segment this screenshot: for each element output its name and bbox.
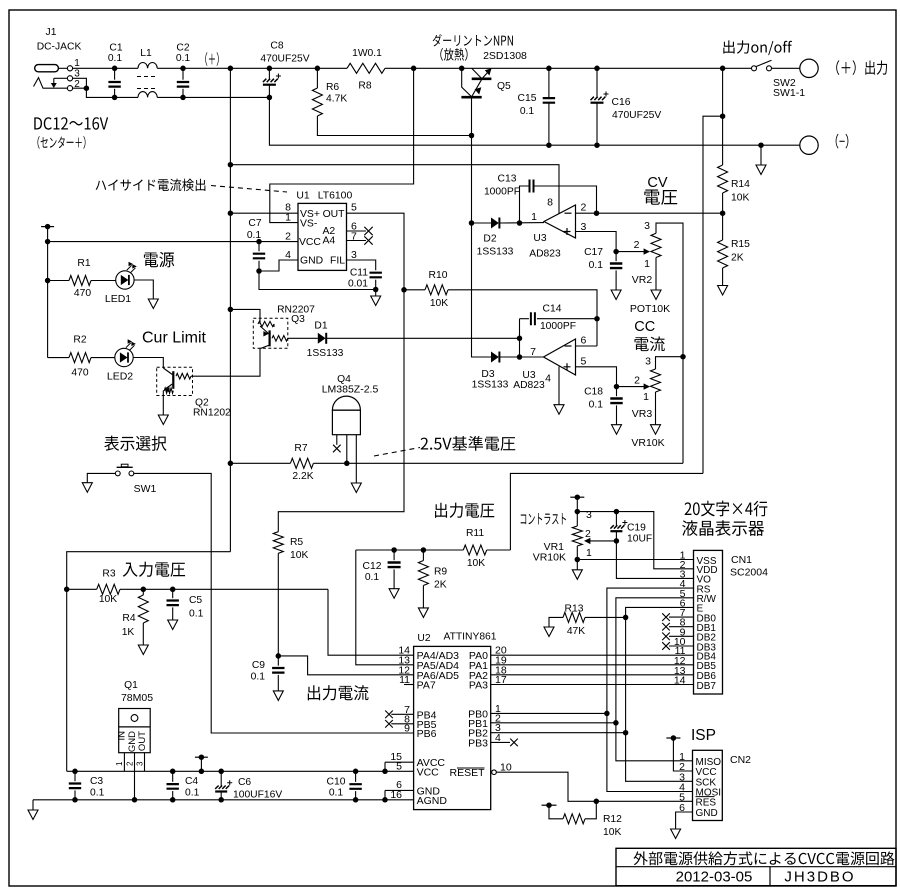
svg-text:D1: D1 [314,321,327,332]
svg-text:CC: CC [634,319,655,335]
svg-text:R12: R12 [603,814,622,825]
svg-text:R6: R6 [326,82,339,93]
wire jack pin1 to C1 [73,67,138,69]
wire E from PB2 [626,607,694,732]
capacitor C4 [170,769,176,775]
svg-text:2SD1308: 2SD1308 [483,50,527,62]
resistor R15 [722,213,724,240]
svg-text:R15: R15 [731,239,750,250]
diode D2 [472,222,492,224]
wire to PA5 [356,550,414,665]
svg-text:8: 8 [547,197,553,209]
svg-text:PB3: PB3 [468,737,488,749]
title block [616,848,896,885]
svg-text:3: 3 [644,220,650,232]
svg-text:R11: R11 [466,528,484,539]
svg-text:78M05: 78M05 [121,692,153,704]
svg-text:2: 2 [634,239,640,251]
svg-text:C12: C12 [363,561,382,572]
label output on/off [723,40,734,53]
svg-text:10K: 10K [467,558,485,569]
wire VR1 wiper [588,540,616,542]
svg-text:10K: 10K [731,193,749,204]
wire RESET to R12 node [496,772,692,801]
svg-text:470: 470 [74,288,91,299]
PB3 no-connect [491,741,510,743]
svg-text:1: 1 [74,58,80,69]
resistor R7 [228,461,234,467]
capacitor C7 [256,239,262,245]
wire SW1 right to PB6 [134,473,414,733]
LED2 [115,348,133,366]
diode D1 [288,337,318,339]
svg-text:0.1: 0.1 [108,53,123,64]
svg-text:SW1-1: SW1-1 [773,87,805,99]
svg-text:C17: C17 [584,247,603,258]
svg-text:U3: U3 [533,233,546,244]
wire VS+ sense pin8 [228,210,234,216]
ground below C17 [611,290,621,300]
svg-text:10K: 10K [430,298,448,309]
svg-text:1SS133: 1SS133 [477,247,514,258]
svg-text:R4: R4 [122,613,135,624]
svg-text:C7: C7 [248,218,261,229]
wire main rail down-left [229,68,231,551]
svg-text:AD823: AD823 [513,380,545,391]
svg-text:4: 4 [545,373,551,385]
svg-text:SW1: SW1 [134,483,157,495]
svg-text:C4: C4 [185,776,198,787]
capacitor C9 [276,653,282,659]
svg-text:C5: C5 [189,595,202,606]
ground at minus rail [758,142,764,148]
svg-text:R2: R2 [73,335,86,346]
pot VR1 [572,526,582,546]
svg-text:R14: R14 [731,179,750,190]
contrast circuit [521,514,527,524]
svg-text:C3: C3 [90,776,103,787]
svg-text:R10: R10 [429,270,448,281]
svg-text:CV: CV [647,175,667,191]
transistor Q5 darlington [411,66,417,72]
resistor R13 [585,616,626,618]
svg-text:VS-: VS- [300,219,317,230]
wire 5V to VDD [577,512,693,569]
wire C7 ground run [259,271,376,290]
svg-text:1: 1 [531,211,537,223]
node 5V stub ISP [666,737,680,739]
wire output node down to R14 [722,68,724,116]
svg-text:C10: C10 [327,777,346,788]
terminal (-) output [800,136,818,154]
svg-text:PA7: PA7 [417,680,436,692]
pot VR2 [616,251,646,253]
resistor R2 [48,357,69,359]
wire jack pin2/3 node [73,78,87,88]
svg-text:2: 2 [581,202,587,214]
svg-text:D3: D3 [481,369,494,380]
svg-text:10K: 10K [603,827,621,838]
wire output sense to R11 [510,473,703,550]
svg-text:0.1: 0.1 [365,572,380,583]
svg-text:4.7K: 4.7K [326,94,347,105]
svg-text:R8: R8 [358,81,371,92]
capacitor C17 [615,252,617,262]
svg-text:Q3: Q3 [291,314,305,325]
wire U1 OUT pin5 [278,213,404,532]
svg-text:R9: R9 [434,567,447,578]
wire to PA4 [328,589,414,655]
svg-text:DB7: DB7 [697,681,717,692]
svg-text:470UF25V: 470UF25V [612,110,661,121]
svg-text:0.1: 0.1 [589,400,604,411]
svg-text:LT6100: LT6100 [318,191,353,202]
svg-text:DC-JACK: DC-JACK [37,42,82,53]
svg-text:1SS133: 1SS133 [307,348,344,359]
svg-text:U1: U1 [296,191,310,202]
node 5V stub contrast [570,496,584,498]
svg-text:0.1: 0.1 [520,106,535,117]
svg-text:1: 1 [115,761,124,766]
svg-text:C14: C14 [543,304,562,315]
svg-text:GND: GND [696,808,718,819]
svg-text:1SS133: 1SS133 [472,380,509,391]
svg-text:3: 3 [645,356,651,368]
wire VCC line to U1 [48,241,298,243]
svg-text:D2: D2 [483,234,496,245]
svg-text:2K: 2K [731,253,744,264]
ground below Q4 [351,483,361,493]
capacitor C12 [391,547,397,553]
svg-text:ISP: ISP [691,727,716,744]
svg-text:R13: R13 [565,604,584,615]
resistor R5 [277,531,279,533]
svg-text:VR3: VR3 [632,408,653,420]
svg-text:3: 3 [351,249,357,261]
svg-text:1W0.1: 1W0.1 [352,48,382,59]
switch SW1 [115,471,120,476]
svg-text:C18: C18 [584,387,603,398]
svg-text:C16: C16 [612,97,631,108]
svg-text:LED2: LED2 [107,371,133,383]
svg-text:Q1: Q1 [124,680,138,691]
label high-side current sense [96,181,107,190]
svg-text:C9: C9 [252,660,265,671]
pot VR3 [617,386,647,388]
svg-text:VR10K: VR10K [533,552,566,564]
U1 pins 6 7 no-connect [347,230,367,232]
svg-text:2012-03-05: 2012-03-05 [676,869,753,886]
ground below VR1 [576,560,578,570]
svg-text:U2: U2 [417,633,430,644]
wire CV + input to VR2 [576,232,617,252]
svg-text:RN1202: RN1202 [193,408,231,419]
svg-text:JH3DBO: JH3DBO [784,869,855,886]
svg-text:10UF: 10UF [627,534,652,545]
svg-text:AGND: AGND [417,795,448,807]
resistor R11 [487,549,511,551]
op-amp U3 CC error amp [544,339,576,375]
capacitor C10 [353,769,359,775]
ground below Q2 [158,415,168,425]
U2 PA7 stub [404,684,414,686]
resistor R9 [421,547,427,553]
svg-text:7: 7 [530,346,536,358]
ground below R15 [718,286,728,296]
svg-text:R1: R1 [77,258,90,269]
transistor Q2 RN1202 [157,367,193,395]
wire Q2 base to Q3 collector [191,348,260,376]
IC U2 ATTINY861 [414,646,491,809]
wire left rail [47,227,49,358]
svg-text:3: 3 [586,509,592,521]
wire SW1 left to ground [87,473,115,482]
svg-text:VR2: VR2 [632,274,653,286]
connector CN1 SC2004 [694,550,723,694]
svg-text:VCC: VCC [417,766,440,778]
wire CC + input to VR3 [576,367,617,387]
ground below VR2 [651,290,661,300]
label display select [104,436,119,451]
svg-text:0.1: 0.1 [185,788,200,799]
svg-text:2K: 2K [434,580,447,591]
dashed leader 2.5V [374,448,420,457]
resistor R6 [315,66,321,72]
svg-text:R3: R3 [102,569,115,580]
svg-text:C13: C13 [498,174,517,185]
dashed leader to U1 [211,186,287,193]
svg-text:PB6: PB6 [417,728,437,740]
wire VSS [577,559,693,561]
svg-text:POT10K: POT10K [630,303,670,315]
svg-text:GND: GND [300,256,323,267]
wire Q5 emitter node down [471,136,473,224]
capacitor C5 [170,587,176,593]
wire VO [616,541,693,579]
wire PB0 to RS/MOSI [491,712,607,714]
capacitor C16 electrolytic [594,66,600,72]
resistor R14 [722,116,724,165]
svg-text:CN1: CN1 [731,554,752,566]
resistor R3 [64,587,70,593]
svg-text:0.1: 0.1 [90,788,105,799]
wire L1 to C2 top [157,67,347,69]
svg-text:OUT: OUT [323,209,346,220]
svg-text:47K: 47K [567,626,585,637]
svg-text:1: 1 [285,212,291,224]
capacitor C15 [546,66,552,72]
wire U1 GND pin4 [259,260,298,271]
svg-text:14: 14 [674,675,686,687]
svg-text:CN2: CN2 [730,754,751,766]
label power [144,252,158,267]
transistor Q3 RN2207 [228,307,234,313]
svg-text:1000PF: 1000PF [540,321,576,332]
svg-text:C11: C11 [350,268,368,279]
wire LED2 to Q2 [133,358,163,369]
wire CV inverting input line [576,212,723,214]
svg-text:A4: A4 [323,236,336,247]
svg-text:5: 5 [581,356,587,368]
label 20x4 LCD [685,502,692,515]
svg-text:IN: IN [116,731,127,741]
wire PB1 to R/W MISO [491,722,616,724]
label input voltage [123,563,138,577]
svg-text:4: 4 [285,249,291,261]
wire 5V rail [67,770,385,772]
svg-text:VCC: VCC [299,237,321,248]
terminal (+) output [800,59,818,77]
label output current [308,685,320,700]
label (+) input [205,52,207,66]
wire to output sense line [703,116,723,473]
wire CC inverting input [576,345,598,347]
wire op-amp supply line [230,165,559,214]
wire jack to bottom rail [86,88,138,97]
label output voltage [435,503,447,518]
svg-text:0.1: 0.1 [189,609,204,620]
svg-text:1K: 1K [122,627,135,638]
svg-text:1: 1 [643,391,649,403]
svg-text:LED1: LED1 [105,293,131,305]
connector J1 DC-JACK [35,65,59,72]
CN2 GND to ground [676,812,693,829]
capacitor C14 [520,318,529,320]
svg-text:5: 5 [351,202,357,214]
svg-text:3: 3 [136,761,145,766]
resistor R10 [404,289,425,291]
label (hounetsu) [440,48,443,61]
label (center+) [37,136,39,149]
wire ground rail [33,799,385,801]
svg-text:C19: C19 [627,523,646,534]
svg-text:1: 1 [644,258,650,270]
svg-text:RES: RES [696,797,717,808]
svg-text:2: 2 [125,761,134,766]
CN1 DB0-DB3 no-connect [669,616,694,618]
wire C14 to output node [519,319,521,357]
node 5V stub [195,756,208,758]
wire L1 to C2 bottom [157,96,269,98]
capacitor C1 [112,66,118,72]
svg-text:470: 470 [71,368,88,379]
resistor R8 shunt [347,63,385,73]
svg-text:PA3: PA3 [469,680,488,692]
svg-text:Q5: Q5 [497,81,511,92]
node supply rail junction [228,162,234,168]
wire MISO from PB1 [616,723,693,761]
op-amp U3 CV error amp [544,205,576,238]
wire R/W from PB1 [616,598,694,723]
capacitor C18 [616,387,618,397]
wire MOSI from PB0 [607,713,693,791]
label voltage [644,190,660,205]
svg-text:R7: R7 [294,443,307,454]
svg-text:AD823: AD823 [529,249,561,260]
node VCC stub top-left [41,226,54,228]
wire LED1 to ground [134,280,153,299]
svg-text:SC2004: SC2004 [730,567,768,579]
svg-text:J1: J1 [46,27,57,38]
svg-text:100UF16V: 100UF16V [233,790,282,801]
svg-text:2: 2 [634,375,640,387]
capacitor C6 electrolytic [218,769,224,775]
title text [633,851,647,865]
svg-text:10K: 10K [99,594,117,605]
wire C8 bottom to minus rail [269,97,800,145]
svg-text:L1: L1 [140,48,152,59]
label darlington NPN [433,34,442,46]
capacitor C11 [347,260,376,270]
connector CN2 [693,750,723,820]
voltage reference Q4 LM385Z-2.5 [332,396,360,410]
svg-text:R5: R5 [290,537,303,548]
svg-text:0.1: 0.1 [589,260,604,271]
svg-text:0.1: 0.1 [251,672,266,683]
svg-text:1000PF: 1000PF [484,187,520,198]
wire input rail to R3 [67,552,231,772]
ground rail arrow [32,800,34,810]
IC U1 LT6100 [298,203,347,270]
svg-text:LM385Z-2.5: LM385Z-2.5 [322,384,379,396]
capacitor C3 [72,769,78,775]
label (-) output [836,134,839,149]
svg-text:FIL: FIL [330,256,345,267]
svg-text:0.1: 0.1 [247,230,262,241]
Q1 legs [123,753,125,772]
resistor R4 [141,587,147,593]
ground below VR3 [651,425,661,435]
capacitor C2 [180,66,186,72]
svg-text:470UF25V: 470UF25V [260,54,309,65]
ground below C11 [375,290,377,297]
capacitor C13 [520,186,530,223]
svg-text:0.1: 0.1 [176,53,191,64]
svg-text:C1: C1 [109,43,122,54]
svg-text:RESET: RESET [449,767,485,779]
label 2.5V reference [421,438,428,450]
wire PB2 to E SCK [491,732,626,734]
svg-text:10K: 10K [290,550,308,561]
resistor R12 [585,801,596,819]
switch SW2 output on/off [720,66,726,72]
svg-text:Cur Limit: Cur Limit [142,330,207,347]
label current [635,337,649,351]
ground below C18 [612,425,622,435]
svg-text:C6: C6 [238,777,251,788]
resistor R1 [45,278,51,284]
svg-text:ATTINY861: ATTINY861 [443,632,496,643]
svg-text:0.1: 0.1 [329,788,344,799]
label DC12-16V [34,117,42,129]
svg-text:C15: C15 [518,93,537,104]
wire SCK from PB2 [626,733,693,782]
diode D3 [472,223,492,357]
svg-text:VR10K: VR10K [631,437,664,449]
capacitor C8 electrolytic [267,66,273,72]
svg-text:6: 6 [581,335,587,347]
op-amp CC V- pin4 to ground [558,367,560,405]
svg-text:1: 1 [586,547,592,559]
wire C9 node to PA6 [278,656,413,675]
node main positive rail junction [228,66,234,72]
wire VS- sense from R8 right [270,68,414,222]
LED1 [116,271,134,289]
svg-text:C8: C8 [270,41,283,52]
svg-text:0.01: 0.01 [348,279,368,290]
capacitor C19 electrolytic [614,509,620,514]
svg-text:OUT: OUT [137,731,148,751]
